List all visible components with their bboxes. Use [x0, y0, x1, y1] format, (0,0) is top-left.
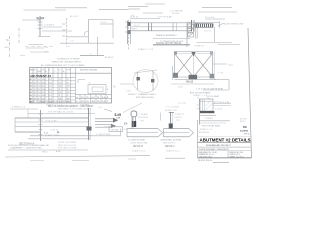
svg-text:SEE SHEET S-9 FOR BAR DETAILS: SEE SHEET S-9 FOR BAR DETAILS: [58, 108, 92, 111]
step outline right: [214, 79, 229, 81]
diagonal right panel: [194, 54, 213, 78]
detail D: bearing pedestal section (top-right): [187, 8, 237, 47]
anchor bolt ring: [131, 111, 137, 117]
seat ledge line: [200, 115, 216, 117]
pedestal bottom: [197, 42, 233, 44]
left post with ties: [40, 110, 42, 141]
svg-text:DETAIL B: DETAIL B: [133, 145, 143, 148]
bolt shaft: [131, 117, 133, 121]
svg-text:2'-0 x 1'-4: 2'-0 x 1'-4: [205, 17, 215, 19]
svg-text:TYP: TYP: [140, 121, 145, 123]
svg-text:APPROACH SLAB: APPROACH SLAB: [214, 101, 230, 104]
bar block left: [137, 77, 140, 80]
tray left edge: [126, 129, 128, 137]
stacked box hatch marks: [189, 25, 193, 37]
right leader: [213, 63, 227, 65]
left post dark band 1: [128, 22, 131, 26]
svg-text:EXPOSED EDGES: EXPOSED EDGES: [136, 97, 155, 99]
svg-text:AS NOTED: AS NOTED: [199, 131, 210, 134]
backwall box: [200, 99, 213, 111]
interior ledge line: [100, 23, 113, 25]
svg-text:SPLICE: SPLICE: [172, 13, 180, 15]
sheet background: [0, 0, 256, 165]
detail A labels: [5, 17, 55, 53]
dimension line: [198, 11, 237, 13]
leader to box: [207, 98, 211, 100]
dimension line: [24, 9, 67, 11]
bottom tick line mid: [72, 159, 89, 161]
two-column divider: [227, 151, 229, 158]
svg-text:CONST JT: CONST JT: [194, 45, 205, 47]
lower line 1: [200, 120, 230, 122]
step vertical: [214, 27, 216, 42]
svg-text:PILE LAYOUT PLAN: PILE LAYOUT PLAN: [58, 146, 77, 149]
rule above title: [198, 135, 252, 137]
svg-text:6-14: 6-14: [56, 151, 61, 153]
mid horizontal: [67, 36, 89, 38]
left wall elevation (bottom-left): [10, 108, 95, 141]
bottom horizontal long: [60, 42, 114, 44]
sub-table mid line: [76, 98, 112, 100]
detail C: beam seat elevation (top middle-right): [128, 4, 195, 45]
masonry plate hatched bar: [195, 24, 213, 27]
svg-text:NOTE: ALL EXPOSED CORNERS SHAL: NOTE: ALL EXPOSED CORNERS SHALL BE: [8, 144, 50, 147]
svg-text:CHEEKWALL AT SEAT: CHEEKWALL AT SEAT: [160, 139, 182, 142]
top chord second line: [175, 53, 214, 55]
pointed right end: [158, 129, 163, 137]
dim extension vline: [27, 110, 29, 119]
note above benches: [128, 91, 192, 105]
banner underline: [30, 77, 76, 79]
girder top flange: [131, 22, 192, 24]
bottom rule (dark): [198, 157, 252, 159]
sym centerline tick: [160, 113, 162, 121]
svg-text:REV A: REV A: [244, 133, 250, 136]
svg-text:PART ELEVATION - WINGWALL: PART ELEVATION - WINGWALL: [40, 101, 73, 104]
right post double line: [88, 108, 90, 140]
svg-text:2-#5 A501: 2-#5 A501: [44, 24, 55, 27]
course line 1: [15, 121, 88, 123]
svg-text:W6x25: W6x25: [186, 82, 194, 84]
svg-text:W/ NUT TYP: W/ NUT TYP: [165, 110, 178, 112]
svg-text:6": 6": [90, 54, 92, 56]
post base dark block: [169, 124, 173, 129]
small leader with arrow: [104, 109, 112, 112]
leader line left: [120, 83, 133, 85]
girder bottom flange: [131, 30, 192, 32]
svg-text:TOP OF WALL EL 312.40: TOP OF WALL EL 312.40: [48, 111, 74, 114]
svg-text:BRG: BRG: [5, 47, 10, 49]
svg-text:1" EXP JT: 1" EXP JT: [175, 114, 185, 116]
bench 1 labels: [128, 113, 149, 152]
svg-text:SCHEDULE OF REINF: SCHEDULE OF REINF: [57, 59, 80, 61]
bending diagram inner box: [92, 87, 103, 92]
right face line: [152, 71, 154, 91]
bottom dimension line: [171, 83, 214, 85]
interior vertical: [112, 20, 114, 39]
svg-text:SECTION AT SEAT: SECTION AT SEAT: [202, 125, 221, 128]
svg-text:1-#4 TIE: 1-#4 TIE: [215, 108, 223, 110]
svg-text:1-6 x 10: 1-6 x 10: [204, 31, 211, 33]
svg-text:PLACE 1" CHAMFER ON ALL: PLACE 1" CHAMFER ON ALL: [128, 93, 157, 96]
centerline left margin: [9, 36, 11, 58]
faint ground dash: [25, 46, 55, 48]
platform line extension: [92, 135, 121, 137]
top horizontal line above frame: [218, 44, 240, 46]
sub-table digits: [76, 97, 109, 103]
wall elevation labels: [12, 101, 90, 146]
bottom chord second line: [175, 79, 217, 81]
footing line: [80, 55, 104, 57]
top chord: [175, 51, 214, 53]
tray bottom: [127, 136, 158, 138]
reinforcing arrow lower: [95, 124, 116, 128]
dimension line: [55, 7, 87, 9]
left end post: [127, 21, 129, 45]
svg-text:2" GROUT BED: 2" GROUT BED: [96, 134, 111, 136]
svg-text:ELASTOMERIC PAD: ELASTOMERIC PAD: [224, 23, 244, 26]
post cap tick: [169, 112, 174, 114]
tray mid: [127, 131, 158, 133]
tick marks: [62, 23, 66, 25]
intermediate stiffener pair: [148, 23, 150, 31]
svg-text:END CROSS FRAME: END CROSS FRAME: [190, 91, 211, 94]
stacked dim row 3: [30, 51, 49, 53]
svg-text:ABUTMENT #2 DETAILS: ABUTMENT #2 DETAILS: [200, 137, 251, 142]
header underline: [30, 72, 112, 74]
hook bracket: [84, 31, 88, 36]
svg-text:1½: 1½: [124, 122, 127, 126]
tray left edge: [163, 129, 165, 137]
sheet right border (slightly tilted scan): [248, 28, 252, 158]
backwall left edge: [88, 20, 90, 44]
svg-text:2'-6∅: 2'-6∅: [126, 90, 131, 93]
cross-frame detail (center-right): [171, 45, 240, 91]
svg-text:TOP OF SLAB: TOP OF SLAB: [158, 16, 172, 19]
bottom tick line left: [30, 160, 44, 162]
keyway box left of bench: [109, 127, 123, 132]
short line: [205, 18, 225, 20]
lower line 2: [200, 122, 226, 124]
leader to note: [218, 23, 224, 26]
post double line: [170, 112, 172, 129]
course line 2: [15, 126, 88, 128]
right end plate pair: [191, 20, 193, 32]
stacked box column: [188, 24, 194, 28]
stacked dim row 2: [26, 47, 44, 49]
svg-text:DETAIL C: DETAIL C: [165, 145, 175, 148]
girder flange lower: [131, 26, 192, 28]
tray top: [164, 128, 190, 130]
svg-text:¾" PLATE: ¾" PLATE: [138, 113, 148, 116]
svg-text:℅ BRG: ℅ BRG: [130, 28, 137, 31]
svg-text:EL 312: EL 312: [37, 17, 45, 20]
center annotations and anchor bolts: [98, 103, 142, 128]
long seat line: [42, 30, 72, 32]
bottom chord: [175, 76, 214, 78]
svg-text:REV 2: REV 2: [42, 151, 49, 153]
svg-text:C5 x 9: C5 x 9: [134, 25, 139, 27]
tray bottom: [164, 136, 190, 138]
dashed face of stem: [66, 18, 68, 44]
bench detail 2 (bottom center-right): [161, 112, 194, 137]
dimension line: [128, 8, 140, 10]
sub-table columns: [80, 95, 106, 104]
title block: [198, 120, 252, 162]
svg-text:5-#5: 5-#5: [115, 113, 122, 117]
course bottom short: [15, 131, 40, 133]
svg-text:℅: ℅: [113, 85, 116, 89]
svg-text:1" CLR: 1" CLR: [100, 22, 107, 24]
bottom border segment right: [165, 157, 185, 159]
upper wall line: [15, 117, 88, 119]
diagonal left panel: [175, 54, 194, 78]
right-middle seat section detail: [196, 88, 247, 131]
short bottom line: [213, 161, 229, 163]
svg-text:#5 @ 12 EF: #5 @ 12 EF: [45, 120, 57, 122]
cross-frame labels: [178, 64, 233, 97]
svg-text:¼" PL: ¼" PL: [218, 72, 224, 75]
svg-text:EL 310.2: EL 310.2: [105, 57, 114, 59]
svg-text:WORK THIS SHEET: WORK THIS SHEET: [58, 142, 77, 144]
svg-text:BARS FOR ONE ABUTMENT: BARS FOR ONE ABUTMENT: [52, 61, 82, 64]
sub-table divider: [76, 94, 112, 96]
centerline (dash-dot): [18, 28, 20, 44]
left post: [174, 52, 176, 78]
footing line: [30, 135, 92, 137]
svg-text:#4 @ 18: #4 @ 18: [130, 17, 139, 19]
title block left border: [197, 120, 199, 158]
dimension line: [128, 6, 148, 8]
diagonal left panel 2: [175, 54, 194, 78]
dimension line: [202, 7, 232, 9]
gusset right top: [210, 52, 213, 55]
svg-text:CHAMFERED ¾" UNLESS NOTED: CHAMFERED ¾" UNLESS NOTED: [10, 146, 42, 149]
rule below title: [198, 142, 252, 144]
header labels: [30, 68, 98, 73]
column section detail (center): [120, 70, 158, 93]
top line: [28, 113, 95, 115]
svg-text:FILLER: FILLER: [175, 117, 183, 119]
vertical joint line: [97, 37, 99, 56]
column lines: [33, 68, 76, 104]
svg-text:LEVEL EACH WAY: LEVEL EACH WAY: [130, 142, 148, 145]
detail title underline: [153, 44, 190, 46]
leader diagonal: [123, 103, 142, 113]
footing lower line: [28, 138, 90, 140]
detail C labels: [130, 10, 184, 52]
svg-text:PAVING NOTCH DETAIL: PAVING NOTCH DETAIL: [156, 42, 182, 45]
detail B: backwall plan (top-center): [60, 10, 129, 56]
bar block right: [151, 79, 154, 82]
left edge: [14, 118, 16, 132]
wall face vertical with reinforcing ticks: [39, 16, 41, 36]
small bend mark: [78, 80, 85, 84]
svg-text:2-#6 CONT IN CAP EA SEAT: 2-#6 CONT IN CAP EA SEAT: [196, 88, 224, 91]
svg-text:BENDING DIAGRAM: BENDING DIAGRAM: [80, 69, 98, 72]
svg-text:ALL DIMENSIONS ARE OUT TO OUT: ALL DIMENSIONS ARE OUT TO OUT OF BARS: [41, 64, 85, 67]
step bottom: [203, 89, 229, 91]
svg-text:BEARING ASSEMBLY: BEARING ASSEMBLY: [156, 34, 177, 37]
backwall top edge: [89, 19, 114, 21]
top of slab line: [130, 18, 160, 20]
pedestal top: [187, 22, 220, 24]
center post: [193, 52, 195, 78]
svg-text:FEDERAL AID PROJECT: FEDERAL AID PROJECT: [206, 144, 232, 147]
sloped top line: [134, 70, 157, 73]
wall left vertical: [199, 99, 201, 125]
svg-text:x 8': x 8': [117, 118, 121, 120]
top of wall line: [22, 19, 40, 21]
svg-text:CONST JOINT: CONST JOINT: [45, 135, 60, 137]
detail A: wingwall corner section (top-left): [10, 8, 88, 58]
right post: [212, 52, 214, 78]
sole plate line: [153, 38, 190, 40]
box faint hatch: [206, 103, 213, 110]
table title: [41, 59, 85, 67]
left face line: [137, 72, 139, 91]
table outer frame: [30, 68, 112, 104]
dimension line: [145, 3, 165, 5]
svg-text:2'-0 BENCH SEAT: 2'-0 BENCH SEAT: [128, 139, 146, 142]
right post second: [213, 52, 215, 80]
arrow leader: [38, 36, 50, 38]
table body digits: [30, 78, 71, 103]
svg-text:KEYWAY: KEYWAY: [111, 128, 120, 131]
notes underline: [8, 149, 88, 151]
sheet bottom border: [5, 156, 150, 157]
svg-text:ABUTMENT #2: ABUTMENT #2: [30, 74, 51, 78]
bearing pad dark stripe: [200, 111, 215, 113]
dimension line: [99, 9, 128, 11]
svg-text:¾" BEVEL: ¾" BEVEL: [204, 117, 213, 120]
pedestal right corner: [219, 21, 221, 28]
svg-text:FILE NO 350-10: FILE NO 350-10: [198, 160, 212, 162]
notes paragraph: [8, 142, 77, 150]
svg-text:S-10F21: S-10F21: [240, 131, 249, 133]
inner vertical: [195, 23, 197, 39]
slab lines to right: [213, 103, 231, 105]
seat line: [42, 26, 62, 28]
svg-text:SCALE 1" = 1'-0: SCALE 1" = 1'-0: [138, 48, 154, 51]
detail D labels: [194, 17, 244, 48]
gusset center bottom: [189, 75, 198, 79]
left post dark band 2: [128, 30, 131, 34]
svg-text:1'-2 TYP: 1'-2 TYP: [178, 103, 187, 105]
pedestal left edge: [186, 23, 188, 48]
bench 2 labels: [160, 105, 185, 153]
bottom tick line right: [128, 158, 136, 160]
dimension line: [10, 108, 38, 110]
svg-text:℅: ℅: [6, 38, 9, 42]
svg-text:TYP: TYP: [176, 120, 181, 122]
svg-text:4 SPA @ 1'-3: 4 SPA @ 1'-3: [12, 106, 26, 109]
inner vertical 2: [196, 23, 198, 39]
faint stiffener pair 2: [172, 23, 174, 31]
stacked dim tick: [20, 54, 25, 56]
tray top: [127, 128, 158, 130]
rule: [198, 146, 252, 148]
gusset right bottom: [210, 74, 215, 79]
bolt embedded dark block: [132, 121, 137, 127]
bending diagram box: [88, 85, 106, 94]
left dim extension: [172, 66, 174, 80]
stacked dim row 1: [29, 44, 43, 46]
svg-text:SEE NOTE 3: SEE NOTE 3: [163, 143, 176, 145]
box inner top line: [200, 100, 213, 102]
svg-text:TOP OF SEAT: TOP OF SEAT: [206, 95, 220, 98]
post double line: [131, 117, 133, 129]
svg-text:1'-3" MIN LAP: 1'-3" MIN LAP: [170, 10, 184, 13]
diagonal right panel 2: [194, 54, 213, 78]
platform end vertical: [120, 129, 122, 136]
rule: [198, 150, 252, 152]
row lines: [30, 81, 76, 100]
svg-text:BR 21: BR 21: [240, 121, 245, 123]
pointed right end: [189, 129, 194, 137]
svg-text:SCALE ¼" = 1'-0: SCALE ¼" = 1'-0: [46, 103, 63, 106]
svg-text:SYM ABT: SYM ABT: [80, 104, 90, 107]
gusset left bottom: [173, 73, 178, 78]
svg-text:SCALE 1"=1'-0: SCALE 1"=1'-0: [166, 149, 180, 152]
wall joint dark block: [87, 127, 92, 131]
left tick marks: [197, 104, 200, 106]
bench detail 1 (bottom center-left): [127, 117, 163, 137]
step vertical: [228, 80, 230, 90]
bearing dashed line: [128, 20, 130, 50]
svg-text:SCALE 1"=1'-0: SCALE 1"=1'-0: [132, 149, 146, 152]
bar schedule table (center-left): [30, 59, 117, 111]
reinforcing arrow upper: [95, 118, 118, 123]
column circle: [133, 70, 158, 93]
svg-text:EL 314.2: EL 314.2: [70, 16, 79, 18]
detail B labels: [66, 16, 137, 60]
svg-text:W/ STUDS: W/ STUDS: [138, 117, 149, 119]
gusset top center arrow: [191, 52, 195, 56]
box inner verticals: [202, 99, 204, 111]
tray mid: [164, 131, 190, 133]
gusset left top: [174, 52, 177, 55]
dimension line: [143, 12, 163, 14]
